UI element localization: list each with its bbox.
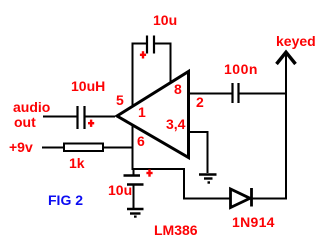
capacitor C-top 10u plates [146,36,148,54]
label 1k [69,158,85,169]
wire +9v supply [42,147,64,149]
label out [14,117,36,128]
capacitor C-bot 10u stub [133,169,135,175]
wire node to right [133,169,231,199]
wire audio input [43,116,77,118]
label FIG 2 [48,195,83,206]
label 1N914 [232,217,275,228]
ground (pins 3,4) [199,173,217,175]
keyed arrow [285,53,287,94]
label 10uH [71,81,105,92]
ground (C-bot) [127,208,144,210]
wire pin 2 output [190,93,232,95]
capacitor C-in (input coupling) plates [76,106,78,129]
capacitor C-bot 10u plates [124,174,141,176]
label pin 6 [137,136,145,147]
polarity + top cap [88,51,153,177]
wire 100n to keyed node [240,93,287,95]
wire diode to keyed line [253,198,288,200]
wire keyed node down to diode [285,94,287,199]
wire top cap to pin 8 [155,44,171,83]
diode D1 1N914 [231,189,251,208]
label pin 1 [138,107,146,118]
resistor 1k body [64,144,103,152]
wire C-bot to ground [133,186,135,209]
label keyed [276,36,316,47]
label pin 8 [174,84,182,95]
label audio [13,102,50,113]
wire pins 3,4 to ground [190,132,208,173]
wire pin 6 down [132,126,134,170]
wire vertical pin1 to top cap [133,44,147,106]
label pin 2 [196,97,204,108]
label pin 5 [116,95,124,106]
capacitor C-100n plates [231,83,233,103]
label pins 3,4 [166,119,185,130]
label +9v [9,142,33,153]
wire input cap to op-amp [86,116,116,118]
label 100n [224,64,258,75]
polarity + input cap [88,122,94,124]
polarity + bottom cap [146,172,152,174]
label 10u bottom [108,185,132,196]
label 10u top [153,15,177,26]
op-amp U1 LM386 triangle [117,72,189,158]
label LM386 [154,225,198,236]
wire 1k to node [103,147,134,149]
